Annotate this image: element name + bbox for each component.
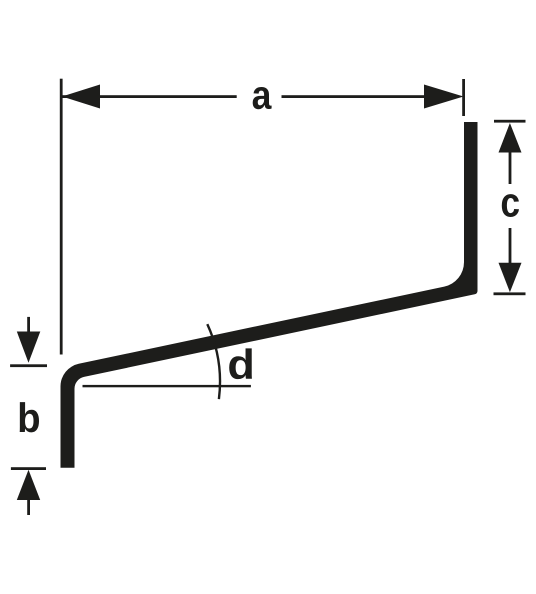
profile cross-section xyxy=(61,122,478,468)
dimension c upper stem xyxy=(509,152,512,184)
dimension b top tick xyxy=(10,364,47,367)
dimension c bottom tick xyxy=(494,292,526,295)
dimension b down arrow xyxy=(17,332,41,363)
dimension b upper stem xyxy=(27,317,30,333)
dimension c lower stem xyxy=(509,228,512,263)
dimension b lower stem xyxy=(27,500,30,516)
dimension b up arrow xyxy=(17,470,40,500)
dimension a extension line right xyxy=(462,79,465,116)
angle d arc xyxy=(207,324,220,399)
dimension c top tick xyxy=(494,120,526,123)
dimension c down arrow xyxy=(499,263,522,292)
dimension a arrowhead right xyxy=(424,85,464,109)
dimension a extension line left xyxy=(60,79,63,355)
dimension a line right part xyxy=(282,95,428,98)
label c xyxy=(502,194,519,217)
dimension a arrowhead left xyxy=(62,85,100,109)
dimension a line left part xyxy=(62,95,237,98)
label b xyxy=(20,402,39,432)
label a xyxy=(253,87,272,109)
dimension c up arrow xyxy=(499,123,522,153)
dimension b bottom tick xyxy=(11,467,46,470)
label d xyxy=(229,348,252,379)
angle d reference line xyxy=(83,385,251,387)
